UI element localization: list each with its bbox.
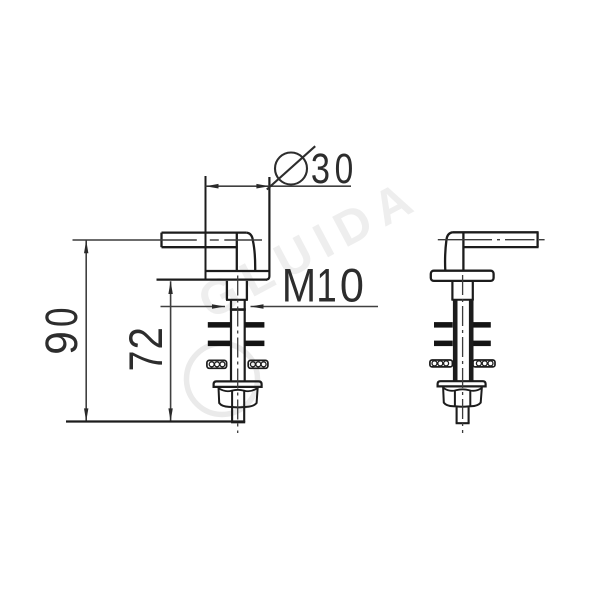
washer right view [430,360,495,367]
neck left [451,281,453,300]
body bottom line [206,270,270,272]
fin row2 right [245,341,265,347]
neck right [472,281,474,300]
72 dimension [170,281,172,421]
nut left view [219,387,258,407]
neck step [226,299,248,301]
fins left view [208,322,265,346]
elbow seam vertical [236,233,238,271]
svg-text:2: 2 [120,327,173,349]
neck right [246,281,248,300]
svg-text:9: 9 [37,331,87,355]
cap over nut left view [214,381,262,387]
nut inner facets [231,391,233,407]
arm top edge [453,231,539,233]
elbow seam vertical [462,232,464,270]
centerline vertical right view [462,275,464,433]
centerline arm right view [438,239,545,241]
cap over nut right view [438,381,486,386]
elbow outer curve [246,233,255,271]
nut top scallop [219,388,258,391]
90 dim line [85,240,87,421]
arm tube outline [162,231,247,233]
flange [431,271,494,281]
arm bottom edge [463,246,538,248]
fin row1 right [245,322,265,328]
diameter symbol [267,146,315,189]
dia30 text [311,145,353,193]
shaft right edge band [469,300,474,381]
shaft tip left view [231,408,245,423]
dia30 dimension line [206,185,352,187]
body right edge / ext line [266,177,269,280]
watermark text GLUIDA [190,169,429,330]
fin row2 left [208,341,230,347]
collar bottom [230,308,246,311]
arm end cap [536,232,538,247]
svg-text:3: 3 [311,145,330,192]
M10 dimension arrows [161,306,379,308]
centerline vertical left view [237,276,239,434]
flange bottom line [157,278,268,280]
fins right view [434,322,491,346]
svg-text:1: 1 [316,259,336,311]
neck left [226,281,228,300]
washer left view [207,360,268,368]
svg-text:7: 7 [120,351,174,372]
shaft left edge [230,300,232,382]
svg-text:0: 0 [340,259,364,312]
svg-text:0: 0 [36,307,87,327]
elbow corner + outer curve [445,232,452,270]
watermark circle [187,344,258,415]
90 dimension [85,240,87,421]
dia30 arrows [206,184,270,189]
fin row1 left [208,322,230,328]
bottom reference line [66,420,245,422]
svg-text:0: 0 [335,145,354,193]
neck step [451,299,473,301]
shaft tip right view [456,407,470,423]
nut right view [443,387,482,407]
svg-text:M: M [282,260,316,312]
shaft left edge band [453,300,458,381]
shaft right edge [244,300,246,382]
centerline arm left view [73,239,263,241]
M10 text [282,259,364,312]
body left edge / ext line [205,176,207,280]
